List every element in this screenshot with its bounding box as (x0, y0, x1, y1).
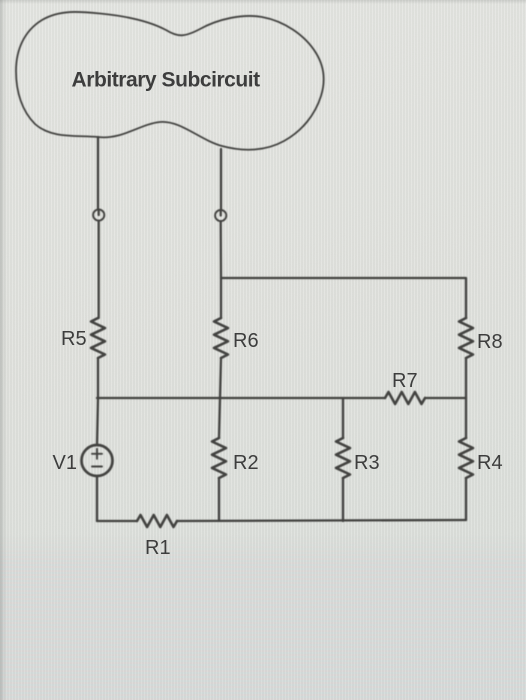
svg-text:R5: R5 (61, 328, 87, 350)
svg-text:R4: R4 (477, 452, 503, 474)
svg-text:R1: R1 (145, 537, 171, 559)
svg-text:R2: R2 (233, 452, 259, 474)
svg-text:R6: R6 (233, 330, 259, 352)
svg-text:R8: R8 (477, 331, 503, 353)
svg-text:V1: V1 (53, 452, 77, 474)
svg-text:R7: R7 (392, 370, 418, 392)
svg-text:Arbitrary Subcircuit: Arbitrary Subcircuit (72, 69, 261, 92)
svg-text:R3: R3 (354, 452, 380, 474)
